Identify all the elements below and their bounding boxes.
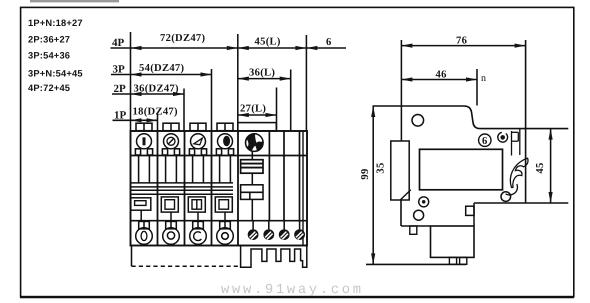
side view: block foot 1 — [449, 257, 456, 264]
module 4 top screw — [218, 134, 233, 149]
RCD test button — [246, 134, 264, 152]
side view: dimension 76 — [401, 36, 525, 48]
legend text — [28, 18, 83, 93]
side view: DIN pocket — [391, 141, 409, 200]
module 3 screw feet — [189, 149, 206, 155]
extension line DZ47/RCD boundary — [237, 34, 239, 131]
extension line right body edge — [305, 35, 307, 131]
extension line 3P right — [211, 69, 213, 131]
module 4 top tab — [217, 123, 233, 131]
dimension 6 — [306, 37, 346, 50]
svg-text:35: 35 — [376, 162, 387, 173]
module 1 bottom neck — [139, 221, 150, 228]
svg-text:2P:36+27: 2P:36+27 — [28, 34, 70, 44]
handle tie bar stripes — [131, 183, 233, 194]
RCD inner wall b — [283, 131, 285, 221]
side view: break zigzag — [400, 190, 411, 200]
module 2 pole lines — [166, 156, 177, 183]
module 4 bottom screw — [217, 228, 234, 245]
side view: bottom right line + 45 reference — [474, 202, 568, 204]
side view: top outline with step — [373, 106, 569, 129]
module 2 top tab — [163, 123, 179, 131]
RCD inner right double wall — [302, 131, 304, 246]
side view: baseline — [366, 263, 466, 265]
dashed mounting outline vertical — [131, 246, 133, 267]
breaker body outline — [131, 131, 308, 246]
svg-text:36(L): 36(L) — [249, 68, 275, 79]
horizontal shelf under top screws — [131, 155, 308, 157]
svg-text:2P: 2P — [114, 83, 127, 95]
RCD button stem — [251, 151, 253, 159]
module 1 handle — [131, 198, 151, 221]
svg-text:4P:72+45: 4P:72+45 — [28, 83, 70, 93]
svg-text:18(DZ47): 18(DZ47) — [133, 107, 179, 118]
label 3P — [111, 64, 131, 76]
dimension 45(L) — [238, 37, 307, 51]
module 1 screw feet — [135, 149, 152, 155]
dimension 36(L) — [238, 68, 291, 81]
svg-text:1P+N:18+27: 1P+N:18+27 — [28, 18, 83, 28]
svg-text:27(L): 27(L) — [240, 104, 266, 115]
svg-text:www.91way.com: www.91way.com — [221, 283, 364, 298]
side view: rivet circle — [419, 197, 429, 207]
module divider 2 — [184, 131, 186, 246]
extension line 36L right — [290, 70, 292, 132]
module 1 top tab — [136, 123, 152, 131]
side view: dimension 45 — [535, 129, 553, 203]
extension line 27L right — [276, 88, 278, 132]
RCD terminal screw 3 — [279, 221, 290, 240]
module 2 handle — [161, 197, 178, 221]
module divider 3 — [211, 131, 213, 246]
RCD stem 3 — [251, 199, 253, 220]
side view: dimension 46 — [401, 70, 477, 82]
side view: clip bottom circle — [501, 192, 511, 202]
module 3 bottom screw — [190, 228, 207, 245]
svg-text:6: 6 — [482, 136, 488, 147]
module 1 bottom screw — [136, 228, 153, 245]
svg-text:46: 46 — [436, 70, 447, 81]
side view: mounting hole — [412, 115, 424, 127]
svg-text:n: n — [481, 73, 486, 84]
svg-text:99: 99 — [360, 168, 371, 179]
RCD terminal screw 4 — [294, 221, 305, 240]
RCD stem 2 — [251, 173, 253, 185]
module 2 bottom screw — [163, 228, 180, 245]
RCD terminal screw 1 — [248, 221, 259, 240]
dimension 72(DZ47) — [131, 33, 238, 50]
side view: body left edge — [400, 200, 402, 227]
svg-text:3P: 3P — [113, 64, 126, 76]
module 3 pole lines — [193, 156, 204, 183]
label 2P — [112, 83, 131, 95]
module 3 bottom neck — [193, 221, 204, 228]
RCD inner wall a — [268, 131, 270, 221]
module 3 top tab — [190, 123, 206, 131]
module 2 screw feet — [162, 149, 179, 155]
label 1P — [113, 109, 131, 121]
module 3 top screw — [191, 134, 206, 149]
RCD inner wall c — [299, 131, 301, 221]
side view: clip hook — [512, 129, 520, 156]
module 3 handle — [188, 197, 205, 221]
svg-text:4P: 4P — [112, 37, 125, 49]
svg-text:3P:54+36: 3P:54+36 — [28, 51, 70, 61]
dimension 27(L) — [238, 104, 277, 118]
svg-text:1P: 1P — [114, 109, 127, 121]
side view: bottom block — [431, 226, 475, 257]
side view: left foot — [410, 226, 417, 234]
svg-text:45: 45 — [535, 162, 546, 173]
extension line 2P right — [183, 89, 185, 132]
DZ47/RCD boundary wall — [237, 131, 239, 246]
module 2 bottom neck — [166, 221, 177, 228]
side view: block foot 2 — [460, 257, 467, 264]
module 4 pole lines — [220, 156, 231, 183]
side view: right lower tab — [466, 203, 474, 226]
side view: clip lower arc — [506, 184, 518, 195]
module 2 top screw — [164, 134, 179, 149]
module divider 1 — [157, 131, 159, 246]
RCD top tab — [238, 123, 276, 131]
extension line 1P right — [157, 114, 159, 132]
horizontal shelf above bottom terminals — [131, 220, 308, 222]
svg-text:3P+N:54+45: 3P+N:54+45 — [28, 68, 83, 78]
side view: lower hole — [414, 210, 424, 220]
side view: extension line n — [476, 69, 478, 106]
svg-text:54(DZ47): 54(DZ47) — [139, 63, 185, 74]
svg-text:6: 6 — [326, 37, 332, 48]
side view: circled 6 — [479, 134, 491, 147]
svg-text:72(DZ47): 72(DZ47) — [160, 33, 206, 44]
module 1 top screw — [137, 134, 152, 149]
module 4 screw feet — [216, 149, 233, 155]
svg-text:76: 76 — [456, 36, 467, 47]
module 4 handle — [215, 197, 232, 221]
side view: dimension 99 — [360, 106, 375, 264]
extension line left body edge — [130, 32, 132, 131]
side view: label window — [420, 149, 503, 190]
svg-text:45(L): 45(L) — [255, 37, 281, 48]
RCD relay block — [241, 185, 263, 200]
dimension 18(DZ47) — [131, 107, 179, 123]
label 4P — [111, 37, 131, 49]
side view: clip spring leaf — [510, 158, 528, 187]
module 4 bottom neck — [220, 221, 231, 228]
dimension 36(DZ47) — [131, 84, 185, 97]
side view: bottom slope — [401, 225, 431, 227]
terminal shield comb — [241, 246, 307, 268]
side view: extension line left (76/46) — [400, 40, 402, 141]
dashed mounting outline — [132, 265, 239, 267]
side view: body right edge — [525, 40, 527, 203]
dimension 54(DZ47) — [131, 63, 212, 77]
svg-text:36(DZ47): 36(DZ47) — [134, 84, 180, 95]
RCD terminal screw 2 — [263, 221, 274, 240]
side view: clip pivot circle — [498, 132, 508, 142]
module 1 pole lines — [139, 156, 150, 183]
RCD striped block — [241, 160, 263, 174]
